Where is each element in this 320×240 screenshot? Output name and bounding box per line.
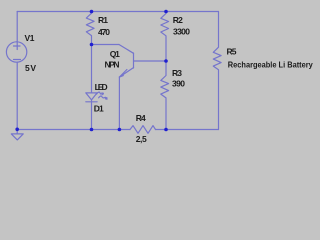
- transistor Q1: [92, 45, 167, 78]
- svg-text:Rechargeable Li Battery: Rechargeable Li Battery: [228, 60, 313, 70]
- resistor R1: [86, 12, 94, 45]
- svg-text:NPN: NPN: [105, 60, 120, 70]
- node dot ground: [15, 128, 19, 132]
- wire top rail: [17, 11, 218, 13]
- svg-text:LED: LED: [95, 82, 108, 92]
- LED D1: [86, 92, 107, 102]
- svg-text:R2: R2: [173, 15, 183, 25]
- svg-text:V1: V1: [25, 33, 35, 43]
- svg-text:D1: D1: [94, 104, 104, 114]
- node dot emitter bottom: [118, 128, 122, 132]
- svg-text:5V: 5V: [25, 63, 36, 73]
- svg-text:Q1: Q1: [110, 49, 120, 59]
- wire bottom rail right: [156, 129, 219, 131]
- svg-text:R1: R1: [98, 15, 108, 25]
- node dot base R2 R3: [164, 59, 168, 63]
- resistor R2: [161, 12, 169, 62]
- node dot collector R1 bottom: [90, 43, 94, 47]
- resistor R3: [161, 61, 169, 130]
- node dot R3 bottom: [164, 128, 168, 132]
- wire bottom rail left: [17, 129, 130, 131]
- node dot R2 top: [164, 10, 168, 14]
- resistor R4: [130, 126, 156, 134]
- svg-text:3300: 3300: [173, 27, 190, 37]
- wire LED bottom lead: [91, 100, 93, 130]
- svg-text:R4: R4: [136, 113, 146, 123]
- svg-text:470: 470: [98, 27, 110, 37]
- resistor R5: [213, 12, 221, 130]
- wire left V1 top lead: [16, 12, 18, 50]
- wire emitter down: [118, 77, 120, 130]
- svg-text:2,5: 2,5: [136, 134, 147, 144]
- node dot LED bottom: [90, 128, 94, 132]
- voltage source V1: [6, 42, 26, 62]
- svg-text:R5: R5: [227, 47, 237, 57]
- svg-text:390: 390: [172, 78, 185, 88]
- node dot R1 top: [90, 10, 94, 14]
- wire V1 bottom lead: [16, 62, 18, 129]
- svg-text:R3: R3: [172, 68, 182, 78]
- wire LED top lead: [91, 45, 93, 93]
- ground: [11, 130, 23, 140]
